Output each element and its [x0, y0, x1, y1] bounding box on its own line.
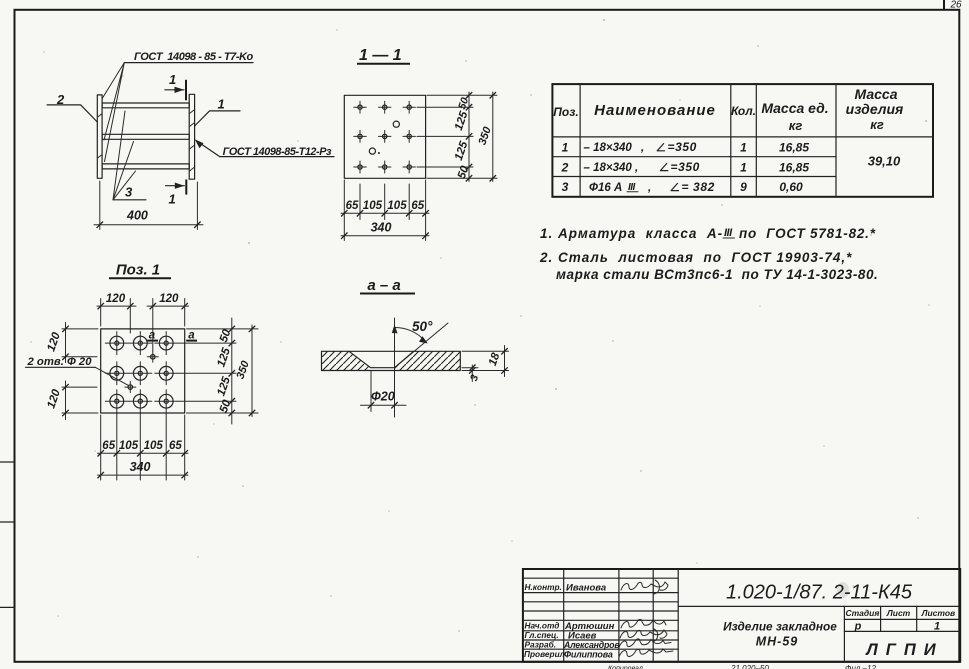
vertical reference line — [394, 318, 396, 417]
svg-text:1: 1 — [740, 141, 747, 155]
svg-text:Лист: Лист — [886, 608, 911, 618]
svg-text:Листов: Листов — [921, 608, 956, 618]
extension lines right — [178, 329, 258, 413]
dimension 120 left upper — [45, 323, 68, 363]
label 2 holes f20 — [26, 356, 129, 386]
svg-text:– 18×340: – 18×340 — [584, 142, 633, 154]
anchor marks 3x3 — [354, 101, 416, 173]
svg-text:21.020–50: 21.020–50 — [730, 664, 769, 669]
svg-text:1: 1 — [740, 160, 747, 174]
thickness 18 dimension — [462, 346, 509, 377]
note 1 rebar class — [540, 226, 876, 241]
svg-text:1: 1 — [934, 621, 940, 633]
cut-off footer text — [608, 664, 876, 669]
svg-text:Изделие закладное: Изделие закладное — [723, 620, 837, 634]
extension lines left — [62, 329, 98, 413]
svg-text:Стадия: Стадия — [845, 608, 879, 618]
weld label GOST 14098-85-T12-Rz — [195, 139, 334, 158]
plate outline — [101, 329, 185, 413]
svg-text:340: 340 — [130, 460, 151, 474]
svg-text:105: 105 — [363, 200, 383, 212]
svg-text:65: 65 — [411, 200, 424, 212]
dimension 120/120 top — [97, 293, 189, 309]
section mark a right — [186, 330, 197, 342]
svg-text:9: 9 — [740, 180, 747, 194]
svg-text:16,85: 16,85 — [779, 141, 809, 155]
svg-text:50°: 50° — [412, 319, 433, 334]
speck dot — [378, 152, 380, 154]
document number — [837, 582, 849, 598]
svg-text:Иванова: Иванова — [566, 583, 606, 594]
angle arc with arrows — [392, 325, 428, 344]
anchor bar bottom (poz.3) — [102, 164, 189, 169]
section mark 1 bottom — [166, 180, 187, 207]
svg-text:Поз. 1: Поз. 1 — [116, 262, 160, 279]
svg-text:1 — 1: 1 — 1 — [359, 47, 402, 64]
f20 dimension — [361, 371, 407, 412]
plate outline 340x350 — [344, 95, 425, 178]
small hole f20 lower — [125, 382, 136, 393]
hatched plate section — [322, 351, 461, 370]
svg-text:1: 1 — [169, 192, 176, 207]
dimension chain 50/125/125/50 right — [215, 318, 235, 424]
dimension 340 — [341, 221, 429, 239]
table row 3 — [562, 180, 803, 194]
svg-text:65: 65 — [346, 200, 359, 212]
dimension chain 65/105/105/65 — [341, 200, 429, 217]
svg-text:105: 105 — [387, 200, 407, 212]
svg-text:,: , — [640, 142, 644, 154]
svg-text:16,85: 16,85 — [779, 160, 809, 174]
svg-text:1: 1 — [218, 97, 225, 112]
binding margin tick 2 — [0, 521, 15, 523]
extension lines top — [101, 299, 185, 352]
section mark a left — [147, 330, 158, 342]
stage sheet headers — [845, 608, 955, 618]
svg-text:изделия: изделия — [846, 101, 904, 117]
leader lines to welds — [103, 63, 125, 162]
svg-text:кг: кг — [870, 117, 884, 132]
svg-text:105: 105 — [119, 440, 139, 452]
svg-text:65: 65 — [102, 440, 115, 452]
svg-text:Проверил: Проверил — [524, 649, 566, 659]
svg-text:1. Арматура класса А-: 1. Арматура класса А- — [540, 226, 723, 241]
position label 2 — [47, 92, 97, 122]
anchor bar middle (poz.3) — [102, 134, 189, 139]
svg-text:Ф20: Ф20 — [371, 390, 395, 404]
svg-text:0,60: 0,60 — [779, 180, 803, 194]
dimension chain 50/125/125/50 — [453, 92, 472, 182]
extension lines right — [417, 95, 497, 178]
svg-text:Поз.: Поз. — [553, 105, 578, 119]
svg-text:Филиппова: Филиппова — [564, 650, 613, 660]
svg-text:340: 340 — [371, 221, 392, 235]
small hole f20 upper — [147, 351, 158, 362]
svg-text:400: 400 — [126, 209, 148, 223]
dimension 340 bottom — [98, 460, 189, 479]
svg-text:Н.контр.: Н.контр. — [525, 582, 562, 592]
dimension 350 — [477, 92, 496, 182]
svg-text:=350: =350 — [668, 140, 697, 154]
position label 1 — [195, 97, 240, 127]
svg-text:кг: кг — [789, 118, 803, 133]
dimension 400 — [94, 181, 203, 230]
extension lines bottom — [101, 414, 185, 481]
plate right (poz.1) — [189, 94, 194, 179]
svg-text:2: 2 — [561, 160, 569, 174]
hole f20 lower — [369, 148, 375, 154]
svg-text:Разраб.: Разраб. — [525, 640, 557, 650]
svg-text:=350: =350 — [671, 160, 700, 174]
poz.1 title — [109, 262, 171, 279]
table row 2 — [561, 160, 810, 174]
svg-text:МН-59: МН-59 — [756, 635, 799, 649]
position label 3 with leaders to bars — [113, 111, 146, 200]
svg-text:Наименование: Наименование — [594, 102, 716, 119]
svg-text:1.020-1/87. 2-11-К45: 1.020-1/87. 2-11-К45 — [726, 582, 913, 604]
sheet number box top right — [944, 0, 962, 11]
section 1-1 title — [357, 47, 410, 64]
countersunk hole outline — [349, 351, 414, 367]
svg-text:1: 1 — [562, 141, 569, 155]
dimension chain 65/105/105/65 bottom — [98, 440, 189, 456]
svg-text:по ГОСТ 5781-82.*: по ГОСТ 5781-82.* — [739, 226, 876, 241]
anchor holes 3x3 — [105, 332, 177, 413]
extension lines bottom — [344, 180, 425, 241]
svg-text:а – а: а – а — [367, 277, 400, 294]
svg-text:120: 120 — [159, 293, 179, 305]
plate left (poz.2) — [97, 95, 102, 178]
table headers — [553, 86, 903, 133]
name entries — [563, 583, 620, 660]
svg-text:Ф16 А: Ф16 А — [589, 182, 622, 194]
role labels — [524, 582, 566, 659]
svg-text:39,10: 39,10 — [868, 154, 901, 169]
svg-text:ЛГПИ: ЛГПИ — [865, 641, 943, 659]
svg-text:1: 1 — [169, 72, 176, 87]
anchor bar top (poz.3) — [102, 103, 189, 108]
svg-text:Кол.: Кол. — [731, 104, 756, 118]
svg-text:– 18×340 ,: – 18×340 , — [584, 162, 639, 174]
land 3 dimension — [462, 365, 481, 383]
chamfer angle line — [395, 323, 449, 368]
svg-text:3: 3 — [562, 180, 569, 194]
table grid — [552, 84, 933, 197]
svg-text:65: 65 — [169, 440, 182, 452]
svg-text:2. Сталь листовая по ГОСТ 1: 2. Сталь листовая по ГОСТ 19903-74,* — [539, 250, 852, 265]
svg-text:26: 26 — [950, 0, 963, 11]
svg-text:,: , — [647, 182, 651, 194]
svg-text:Нач.отд: Нач.отд — [525, 621, 560, 631]
title block grid — [523, 569, 960, 662]
svg-text:Александров: Александров — [563, 640, 620, 650]
svg-text:марка стали ВСт3пс6-1 по ТУ 1: марка стали ВСт3пс6-1 по ТУ 14-1-3023-80… — [556, 267, 878, 282]
table row 1 — [562, 140, 810, 155]
svg-text:Фил.–12: Фил.–12 — [845, 664, 876, 669]
dimension 120 left lower — [45, 381, 68, 420]
note 2 sheet steel — [539, 250, 878, 282]
svg-text:Масса: Масса — [855, 86, 898, 102]
svg-text:р: р — [854, 621, 862, 633]
svg-text:ГOCT 14098 - 85 - T7-Kо: ГOCT 14098 - 85 - T7-Kо — [134, 51, 254, 63]
svg-text:2 отв. Ф 20: 2 отв. Ф 20 — [27, 356, 93, 368]
signature squiggles — [619, 580, 673, 657]
dimension 350 right — [235, 325, 256, 417]
svg-text:Гл.спец.: Гл.спец. — [525, 630, 559, 640]
weld seam marks on plates — [98, 110, 194, 171]
section mark 1 top — [165, 72, 186, 100]
section a-a title — [360, 277, 415, 294]
hole f20 upper — [393, 121, 399, 127]
svg-text:Масса ед.: Масса ед. — [761, 100, 828, 116]
svg-text:105: 105 — [144, 440, 164, 452]
item name — [723, 620, 837, 649]
svg-text:3: 3 — [125, 185, 133, 200]
weld label GOST 14098-85-T7-Ko — [124, 51, 253, 63]
svg-text:= 382: = 382 — [682, 180, 715, 194]
binding margin tick 3 — [0, 606, 15, 608]
binding margin tick 1 — [0, 461, 15, 463]
svg-text:Копировал: Копировал — [608, 666, 643, 669]
svg-text:120: 120 — [106, 293, 126, 305]
